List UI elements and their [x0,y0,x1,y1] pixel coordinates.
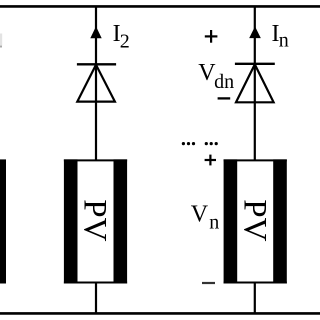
label I1 subscript fragment (cut off) [0,34,2,48]
wire branch n upper [254,6,256,160]
label In [272,21,289,52]
diode Dn [235,64,275,103]
svg-text:2: 2 [120,31,130,53]
dots ... ... [182,142,218,145]
PV module PV1 (cut off at left edge) [0,159,6,283]
wire branch 2 lower [95,283,97,314]
current arrow I2 [90,26,101,38]
svg-text:PV: PV [236,199,272,241]
label I2 [113,21,130,53]
label Vn [191,201,220,233]
PV module PV2 [64,159,127,283]
wire branch n lower [254,283,256,314]
label minus (Vdn minus) [218,97,231,99]
PV module PVn [224,159,287,283]
wire bottom bus [0,312,320,315]
label Vdn [198,60,234,93]
diode D2 [77,64,116,101]
svg-text:PV: PV [77,199,113,241]
svg-text:n: n [209,211,219,233]
svg-text:dn: dn [214,71,234,93]
current arrow In [249,26,261,38]
label + (Vdn plus) [205,30,218,43]
label minus (Vn minus) [202,282,215,284]
svg-text:n: n [279,30,289,52]
svg-text:V: V [191,201,209,227]
label + (Vn plus) [205,155,216,166]
wire branch 2 upper [95,6,97,160]
wire top bus [0,5,320,8]
